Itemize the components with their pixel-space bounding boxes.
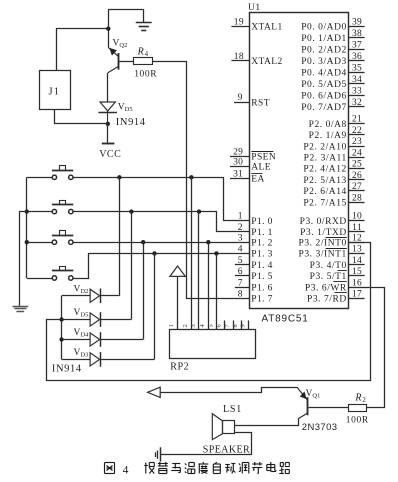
svg-text:5: 5 (238, 256, 243, 266)
svg-text:P1. 7: P1. 7 (251, 295, 273, 305)
svg-text:P1. 6: P1. 6 (251, 283, 273, 293)
ground (top near VQ2) (136, 9, 152, 30)
svg-text:VD5: VD5 (118, 103, 133, 114)
svg-text:VCC: VCC (99, 149, 121, 160)
svg-text:P1. 3: P1. 3 (251, 250, 273, 260)
svg-text:RP2: RP2 (170, 361, 189, 372)
pin 29 PSEN (230, 148, 276, 163)
svg-text:7: 7 (238, 278, 243, 288)
svg-text:18: 18 (234, 52, 244, 62)
svg-text:100R: 100R (346, 416, 369, 426)
svg-text:P3. 2/INT0: P3. 2/INT0 (299, 239, 347, 249)
resistor R4 (134, 46, 158, 79)
svg-text:P3. 0/RXD: P3. 0/RXD (300, 217, 347, 227)
svg-text:25: 25 (352, 160, 362, 170)
svg-text:35: 35 (352, 64, 362, 74)
wire (row1 to P1.0 pin 1) (73, 178, 249, 221)
svg-text:EA: EA (251, 175, 264, 185)
pin 11 P3. 1/TXD (300, 223, 364, 238)
svg-text:P2. 3/A11: P2. 3/A11 (304, 154, 347, 164)
pin 21 P2. 0/A8 (309, 115, 365, 130)
op-amp / IC U1 body (250, 13, 349, 309)
connector J1 (40, 71, 71, 110)
svg-text:28: 28 (352, 193, 362, 203)
pin 30 ALE (230, 158, 271, 173)
pin 27 P2. 6/A14 (303, 182, 364, 197)
svg-text:30: 30 (233, 158, 243, 168)
svg-text:4: 4 (238, 245, 243, 255)
svg-text:2N3703: 2N3703 (302, 422, 338, 433)
pin 19 XTAL1 (231, 17, 282, 32)
pin 24 P2. 3/A11 (304, 148, 365, 163)
wire (row3 to P1.2 pin 3) (73, 242, 249, 244)
svg-text:16: 16 (352, 278, 362, 288)
svg-text:P3. 3/INT1: P3. 3/INT1 (299, 250, 347, 260)
pin 35 P0. 4/AD4 (301, 64, 364, 79)
wire (speaker to ground) (160, 433, 251, 455)
ground (buttons) (12, 307, 28, 312)
RP2 unconnected stubs pins 6-9 (225, 320, 249, 329)
pin 31 EA (230, 170, 265, 185)
svg-text:33: 33 (352, 86, 362, 96)
svg-text:100R: 100R (134, 69, 157, 79)
svg-text:P1. 5: P1. 5 (251, 272, 273, 282)
pin 38 P0. 1/AD1 (301, 29, 364, 44)
ground (speaker, left pointing) (156, 447, 161, 461)
pin 5 P1.4 (235, 256, 273, 271)
svg-text:P1. 2: P1. 2 (251, 239, 273, 249)
svg-text:P3. 4/T0: P3. 4/T0 (310, 261, 347, 271)
wire (VQ2 emitter node to top ground) (109, 10, 144, 48)
transistor VQ2 (108, 39, 127, 73)
pin 37 P0. 2/AD2 (301, 41, 364, 56)
svg-text:4: 4 (199, 324, 206, 328)
svg-text:P3. 5/T1: P3. 5/T1 (310, 272, 347, 282)
wire (row3 down to RP2 pin4) (208, 242, 210, 329)
resistor R2 (346, 392, 369, 425)
svg-text:1: 1 (168, 324, 175, 327)
wire (off-page arrow to VQ1 emitter) (148, 387, 297, 397)
svg-text:P0. 7/AD7: P0. 7/AD7 (301, 103, 347, 113)
push button S2 (27, 201, 74, 214)
svg-text:5: 5 (207, 324, 214, 327)
wire (node to J1 top) (57, 29, 109, 71)
svg-text:P3. 1/TXD: P3. 1/TXD (300, 228, 347, 238)
svg-text:4: 4 (123, 465, 129, 477)
power VCC (99, 124, 121, 160)
svg-text:3: 3 (238, 233, 243, 243)
pin 28 P2. 7/A15 (303, 193, 364, 208)
pin 33 P0. 6/AD6 (301, 86, 364, 101)
svg-text:21: 21 (352, 115, 362, 125)
svg-text:3: 3 (190, 324, 197, 327)
node A (emitter/ground/J1 junction) (106, 27, 110, 31)
svg-text:2: 2 (238, 223, 243, 233)
svg-text:2: 2 (362, 397, 366, 404)
diode VD5 (62, 212, 132, 327)
svg-text:P2. 7/A15: P2. 7/A15 (303, 199, 346, 209)
wire (RP2 pin1 with up arrow) (170, 266, 185, 329)
wire (anode bus to P3.2 INT0 long bottom wire) (47, 243, 371, 381)
svg-text:29: 29 (233, 148, 243, 158)
svg-text:IN914: IN914 (116, 117, 146, 128)
svg-text:10: 10 (352, 212, 362, 222)
svg-text:39: 39 (352, 18, 362, 28)
node (row2/RP2 pin3) (197, 209, 201, 213)
svg-text:P2. 2/A10: P2. 2/A10 (303, 142, 346, 152)
svg-text:VD4: VD4 (74, 328, 90, 339)
svg-text:P0. 5/AD5: P0. 5/AD5 (301, 80, 347, 90)
diode VD5 (98, 102, 132, 124)
node (row1/VD2) (117, 175, 121, 179)
svg-text:P2. 4/A12: P2. 4/A12 (303, 165, 346, 175)
diode VD2 (62, 177, 120, 303)
pin 3 P1.2 (238, 233, 273, 248)
pin 22 P2. 1/A9 (309, 126, 365, 141)
wire (R2 to VQ1 base) (309, 407, 349, 409)
wire (pin 16 P3.6 WR to R2) (364, 288, 385, 408)
svg-text:XTAL2: XTAL2 (251, 57, 282, 67)
node (row3/VD4) (141, 240, 145, 244)
node (row2/VD5b) (129, 209, 133, 213)
push button S3 (27, 231, 74, 245)
svg-text:P2. 1/A9: P2. 1/A9 (309, 131, 347, 141)
svg-text:P1. 0: P1. 0 (251, 217, 273, 227)
svg-text:VD3: VD3 (74, 348, 89, 359)
svg-text:P3. 7/RD: P3. 7/RD (307, 295, 347, 305)
svg-text:38: 38 (352, 29, 362, 39)
pin 34 P0. 5/AD5 (301, 75, 364, 90)
pin 17 P3. 7/RD (307, 289, 365, 304)
svg-text:12: 12 (352, 234, 362, 244)
svg-text:32: 32 (352, 98, 362, 108)
svg-text:P0. 3/AD3: P0. 3/AD3 (301, 57, 347, 67)
pin 15 P3. 5/T1 (310, 267, 365, 282)
svg-text:9: 9 (240, 324, 247, 327)
svg-text:J1: J1 (49, 87, 61, 98)
RP2 pin number labels (rotated) (168, 324, 246, 328)
svg-text:36: 36 (352, 52, 362, 62)
pin 18 XTAL2 (231, 52, 282, 67)
svg-text:P0. 0/AD0: P0. 0/AD0 (301, 23, 347, 33)
pin 8 P1.7 (238, 289, 273, 304)
wire (R4 right to P1.7 pin 8) (152, 62, 249, 299)
wire (row4 to P1.3 pin 4) (73, 254, 249, 279)
pin 10 P3. 0/RXD (300, 212, 365, 227)
svg-text:9: 9 (238, 93, 243, 103)
pin 6 P1.5 (235, 267, 273, 282)
svg-text:PSEN: PSEN (251, 153, 276, 163)
pin 26 P2. 5/A13 (303, 171, 364, 186)
diode VD4 (62, 242, 144, 347)
svg-text:ALE: ALE (251, 163, 271, 173)
svg-text:P0. 6/AD6: P0. 6/AD6 (301, 92, 347, 102)
wire (row1 down to RP2 pin2) (191, 177, 193, 329)
node (bus row3) (25, 240, 29, 244)
pin 13 P3. 3/INT1 (299, 245, 365, 260)
pin 12 P3. 2/INT0 (299, 234, 365, 249)
svg-text:31: 31 (233, 170, 243, 180)
push button S1 (27, 166, 74, 180)
svg-text:1: 1 (238, 212, 243, 222)
wire (row2 down to RP2 pin3) (198, 212, 200, 330)
pin 1 P1.0 (238, 212, 273, 227)
svg-text:2: 2 (182, 324, 189, 327)
node (row4 line/RP2 pin5) (214, 251, 218, 255)
pin 39 P0. 0/AD0 (301, 18, 364, 33)
svg-text:14: 14 (352, 256, 362, 266)
node (row4 line/VD3) (152, 251, 156, 255)
svg-text:8: 8 (232, 324, 239, 327)
svg-text:27: 27 (352, 182, 362, 192)
svg-text:SPEAKER: SPEAKER (203, 444, 250, 455)
wire (row2 to P1.1 pin 2) (73, 212, 249, 232)
wire (VQ1 collector to speaker) (234, 419, 299, 426)
svg-text:VQ2: VQ2 (113, 39, 128, 50)
svg-text:24: 24 (352, 148, 362, 158)
svg-text:P2. 5/A13: P2. 5/A13 (303, 176, 346, 186)
svg-text:R: R (137, 46, 144, 57)
svg-text:4: 4 (145, 51, 149, 58)
svg-text:P3. 6/WR: P3. 6/WR (305, 283, 347, 293)
svg-text:P1. 1: P1. 1 (251, 228, 273, 238)
node (bus/VD5b) (59, 317, 63, 321)
pin 16 P3. 6/WR (305, 278, 365, 293)
wire (button left bus) (26, 177, 28, 278)
wire (node B to J1 bottom) (55, 109, 108, 123)
node (row3/RP2 pin4) (206, 240, 210, 244)
svg-text:XTAL1: XTAL1 (251, 23, 282, 33)
svg-text:P0. 2/AD2: P0. 2/AD2 (301, 46, 347, 56)
svg-text:23: 23 (352, 137, 362, 147)
pin 14 P3. 4/T0 (310, 256, 365, 271)
svg-text:13: 13 (352, 245, 362, 255)
diode VD3 (62, 253, 155, 366)
svg-text:22: 22 (352, 126, 362, 136)
svg-text:VD2: VD2 (74, 284, 89, 295)
svg-text:P0. 1/AD1: P0. 1/AD1 (301, 34, 347, 44)
svg-text:LS1: LS1 (223, 404, 242, 415)
wire (VQ2 base to R4) (119, 61, 134, 63)
svg-text:AT89C51: AT89C51 (262, 314, 309, 325)
svg-text:34: 34 (352, 75, 362, 85)
svg-text:U1: U1 (248, 3, 261, 13)
node (bus row2) (25, 209, 29, 213)
svg-text:P1. 4: P1. 4 (251, 261, 273, 271)
pin 4 P1.3 (238, 245, 273, 260)
svg-text:RST: RST (251, 98, 270, 108)
speaker LS1 (203, 404, 250, 456)
pin 23 P2. 2/A10 (303, 137, 364, 152)
pin 36 P0. 3/AD3 (301, 52, 364, 67)
svg-text:26: 26 (352, 171, 362, 181)
resistor network RP2 (170, 330, 256, 373)
caption: figure 4 alarm and temperature auto-regulation circuit (105, 463, 115, 474)
svg-text:11: 11 (352, 223, 362, 233)
svg-text:IN914: IN914 (52, 364, 82, 375)
pin 25 P2. 4/A12 (303, 160, 364, 175)
svg-text:P0. 4/AD4: P0. 4/AD4 (301, 69, 347, 79)
svg-text:15: 15 (352, 267, 362, 277)
pin 2 P1.1 (238, 223, 273, 238)
svg-text:VD5: VD5 (74, 308, 89, 319)
pin 9 RST (234, 93, 270, 108)
svg-text:8: 8 (238, 289, 243, 299)
transistor VQ1 2N3703 (297, 387, 337, 433)
svg-text:6: 6 (238, 267, 243, 277)
pin 32 P0. 7/AD7 (301, 98, 364, 113)
wire (row4 down to RP2 pin5) (216, 253, 218, 329)
wire (diode anode bus) (61, 296, 63, 360)
push button S4 (27, 267, 74, 281)
svg-text:VQ1: VQ1 (306, 389, 321, 400)
wire (row2 to ground branch) (20, 212, 27, 306)
svg-text:19: 19 (234, 17, 244, 27)
svg-text:37: 37 (352, 41, 362, 51)
svg-text:P2. 0/A8: P2. 0/A8 (309, 120, 347, 130)
pin 7 P1.6 (235, 278, 273, 293)
wire (VQ2 collector down to VD5) (107, 73, 109, 102)
svg-text:R: R (354, 392, 361, 403)
node B (J1 bottom / VD5 / VCC junction) (106, 122, 110, 126)
node (bus/VD4) (59, 337, 63, 341)
svg-text:P2. 6/A14: P2. 6/A14 (303, 187, 346, 197)
svg-text:17: 17 (352, 289, 362, 299)
node (row1/RP2 pin2) (189, 175, 193, 179)
